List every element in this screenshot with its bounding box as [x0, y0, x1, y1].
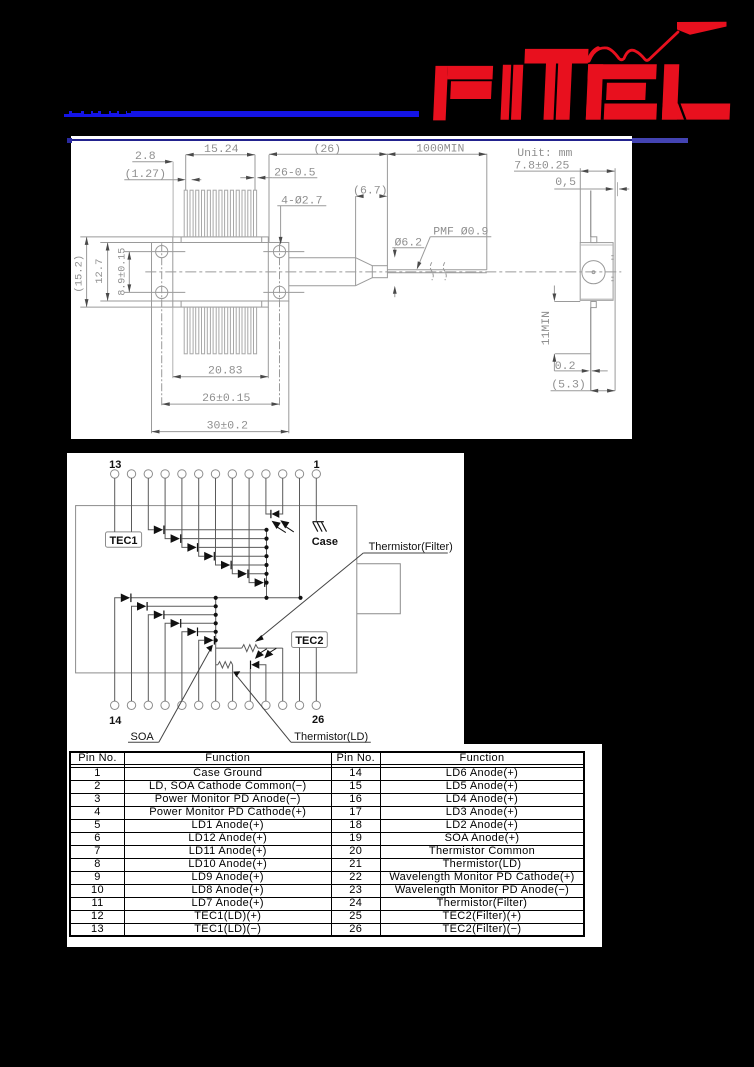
- wire pin2 to cathode common node: [298, 478, 300, 598]
- logo letter E stem body: [586, 64, 603, 119]
- thermistor (LD) zigzag: [217, 661, 232, 667]
- svg-text:1: 1: [313, 458, 319, 470]
- filter sub-assembly box right edge / pin24 stub: [281, 648, 283, 701]
- bottom leads (13 fins): [184, 307, 187, 354]
- svg-text:15.24: 15.24: [204, 143, 239, 156]
- pin 17 circle: [161, 701, 169, 709]
- fiber entering top: [589, 190, 591, 236]
- texts: [109, 458, 453, 742]
- LD4 cathode bar: [163, 610, 165, 619]
- pin 6 circle: [228, 469, 236, 477]
- pin 9 circle: [177, 469, 185, 477]
- TEC2 wire to pin26: [315, 647, 317, 701]
- thermistor(Filter) label underline and leader: [363, 552, 447, 554]
- LD10 cathode bar: [213, 552, 215, 561]
- pin 4 circle: [261, 469, 269, 477]
- svg-text:2.8: 2.8: [135, 150, 156, 163]
- LD4 diode: [153, 610, 162, 619]
- svg-text:0,5: 0,5: [555, 176, 576, 189]
- wavelength PD light arrows: [260, 648, 267, 652]
- arrowheads: [84, 152, 626, 433]
- PMF leader: [430, 235, 491, 237]
- right view receptacle circle: [582, 260, 605, 283]
- logo letter T stem right: [556, 64, 572, 120]
- dim (1.27) leader: [124, 178, 178, 180]
- wire pin14 to LD6 anode: [114, 597, 120, 700]
- wire pin12 to TEC1: [130, 478, 132, 532]
- pin 18 circle: [177, 701, 185, 709]
- right view side ticks: [611, 254, 614, 256]
- TEC2 box: [291, 631, 327, 647]
- svg-text:30±0.2: 30±0.2: [206, 419, 247, 432]
- right dim 7.8: [514, 170, 615, 172]
- LD4 cathode wire to bus: [163, 613, 215, 615]
- LD8 cathode bar: [179, 534, 181, 543]
- hole centerlines: [124, 250, 185, 252]
- LD11 cathode wire to bus: [231, 564, 266, 566]
- LD5 cathode bar: [146, 602, 148, 611]
- LD3 cathode bar: [179, 619, 181, 628]
- svg-text:PMF Ø0.9: PMF Ø0.9: [433, 225, 488, 238]
- filter sub-assembly box top edge: [215, 647, 241, 649]
- SOA label underline and leader: [128, 741, 159, 743]
- LD12 cathode wire to bus: [247, 572, 266, 574]
- logo letter T crossbar: [524, 49, 588, 64]
- case ground hatch: [312, 520, 323, 522]
- TEC2 wire to pin25: [298, 647, 300, 701]
- pin 22 circle: [245, 701, 253, 709]
- svg-text:13: 13: [109, 458, 121, 470]
- pin 2 circle: [295, 469, 303, 477]
- figure box 2: pin connection schematic: [67, 453, 464, 744]
- ferrule: [372, 265, 387, 277]
- pin 23 circle: [261, 701, 269, 709]
- wire pin19 to SOA anode: [198, 640, 203, 701]
- pin 20 circle: [211, 701, 219, 709]
- svg-text:(26): (26): [313, 143, 341, 156]
- thermistor (Filter) zigzag: [241, 644, 257, 651]
- LD2 cathode wire to bus: [197, 630, 215, 632]
- svg-text:SOA: SOA: [130, 731, 154, 743]
- upper cathode bus: [265, 529, 267, 597]
- svg-text:26±0.15: 26±0.15: [202, 392, 250, 405]
- pin 3 circle: [278, 469, 286, 477]
- LD12 cathode bar: [247, 569, 249, 578]
- junction dots lower bus: [213, 604, 217, 608]
- left dim 12.7: [100, 241, 151, 243]
- SOA leader arrowhead: [206, 644, 213, 651]
- wire pin10 to LD8 anode: [165, 478, 170, 538]
- thermistor(LD) label underline and leader: [291, 741, 371, 743]
- svg-text:(5.3): (5.3): [551, 378, 585, 391]
- svg-text:(6.7): (6.7): [353, 184, 387, 197]
- pin 7 circle: [211, 469, 219, 477]
- LD8 cathode wire to bus: [180, 537, 266, 539]
- wire pin13 to TEC1: [113, 478, 115, 532]
- LD9 diode: [187, 543, 196, 552]
- LD10 cathode wire to bus: [214, 555, 266, 557]
- blue bar right of box1: [632, 138, 688, 143]
- fiber exiting bottom: [589, 307, 591, 390]
- pin 5 circle: [245, 469, 253, 477]
- LD5 diode: [137, 602, 146, 611]
- svg-text:26-0.5: 26-0.5: [274, 166, 315, 179]
- wire pin15 to LD5 anode: [131, 606, 136, 701]
- pin 10 circle: [161, 469, 169, 477]
- pin 12 circle: [127, 469, 135, 477]
- wire pin7 to LD11 anode: [215, 478, 220, 565]
- TEC1 box: [105, 532, 141, 547]
- wire pin4 to monitor PD cathode: [266, 478, 271, 514]
- LD7 cathode bar: [163, 525, 165, 534]
- dim 26-0.5 leader: [240, 176, 254, 178]
- thermistor (LD) wire to pin21: [231, 664, 233, 700]
- pin 24 circle: [278, 701, 286, 709]
- lower cathode bus / pin20 thermistor common stub: [214, 597, 216, 700]
- logo letter E bottom bar: [586, 104, 657, 120]
- wavelength PD cathode wire to pin22: [249, 668, 251, 700]
- mounting holes 4x: [155, 245, 167, 257]
- LD5 cathode wire to bus: [147, 605, 216, 607]
- svg-text:Case: Case: [311, 535, 337, 547]
- svg-text:(15.2): (15.2): [73, 255, 85, 293]
- svg-text:1000MIN: 1000MIN: [416, 142, 464, 155]
- wire pin16 to LD4 anode: [148, 614, 153, 700]
- dim 4-2.7 leader: [277, 204, 326, 206]
- extension lines top dims: [172, 161, 174, 236]
- black heading text notches over blue line: [63, 111, 69, 114]
- logo swoosh wave: [589, 32, 679, 61]
- snout taper: [355, 257, 372, 265]
- pin 16 circle: [144, 701, 152, 709]
- LD11 cathode bar: [230, 560, 232, 569]
- wire pin1 to case: [315, 478, 317, 521]
- wavelength PD cathode bar: [249, 660, 251, 668]
- monitor PD light arrows: [255, 521, 293, 658]
- title underline (blue): [64, 111, 419, 117]
- logo swoosh thick tip: [677, 22, 727, 35]
- right view body: [580, 242, 613, 300]
- figure box 3: pin function table: [67, 744, 602, 947]
- monitor PD wires: [269, 513, 272, 515]
- logo letter E mid bar: [606, 83, 646, 100]
- mounting flange: [151, 242, 288, 300]
- cathode common line: [130, 596, 300, 598]
- logo letter I strip 1: [501, 65, 512, 120]
- LD1 cathode bar: [263, 578, 265, 587]
- logo letter L stem: [662, 64, 679, 119]
- wire pin9 to LD9 anode: [182, 478, 187, 547]
- pin 25 circle: [295, 701, 303, 709]
- wire pin8 to LD10 anode: [198, 478, 203, 556]
- main centerline: [145, 271, 621, 273]
- pin 8 circle: [194, 469, 202, 477]
- wire pin11 to LD7 anode: [148, 478, 153, 530]
- dim line (26)/1000MIN: [269, 153, 487, 155]
- junction dots upper bus: [264, 527, 268, 531]
- pin 26 circle: [312, 701, 320, 709]
- LD11 diode: [221, 560, 230, 569]
- wire pin17 to LD3 anode: [165, 623, 170, 701]
- LD9 cathode bar: [196, 543, 198, 552]
- fiber exit protrusion: [356, 563, 399, 613]
- svg-text:14: 14: [109, 714, 122, 726]
- bottom dim 20.83: [171, 307, 173, 378]
- svg-text:20.83: 20.83: [208, 364, 243, 377]
- LD7 cathode wire to bus: [163, 528, 266, 530]
- dimension texts: [73, 142, 585, 432]
- LD9 cathode wire to bus: [197, 546, 266, 548]
- svg-text:Thermistor(LD): Thermistor(LD): [294, 731, 368, 743]
- dim (5.3): [550, 389, 614, 391]
- package body outline: [172, 237, 267, 307]
- dim 0.2: [553, 354, 555, 371]
- leader lines: [128, 553, 448, 742]
- dim 6.2 leader: [392, 246, 424, 248]
- svg-text:8.9±0.15: 8.9±0.15: [116, 248, 127, 296]
- top leads (13 fins): [184, 190, 256, 354]
- figure box 1: package outline drawing: [71, 136, 633, 439]
- fiber (PMF): [387, 269, 486, 271]
- wire pin3 to monitor PD anode: [279, 478, 282, 514]
- svg-text:Unit: mm: Unit: mm: [517, 147, 572, 160]
- svg-text:7.8±0.25: 7.8±0.25: [514, 159, 569, 172]
- logo E stencil gap: [601, 100, 605, 120]
- logo L stencil gap: [678, 104, 687, 120]
- thermistor(LD) leader arrowhead: [233, 671, 240, 677]
- svg-text:26: 26: [312, 713, 324, 725]
- LD2 cathode bar: [196, 627, 198, 636]
- svg-text:0.2: 0.2: [554, 360, 575, 373]
- wire pin6 to LD12 anode: [232, 478, 237, 574]
- logo letter F stem: [433, 66, 448, 121]
- LD6 diode: [120, 593, 129, 602]
- LD3 diode: [170, 619, 179, 628]
- pin 15 circle: [127, 701, 135, 709]
- pin 11 circle: [144, 469, 152, 477]
- bottom dim 30+-0.2: [150, 301, 152, 433]
- LD2 diode: [187, 627, 196, 636]
- wavelength PD triangle: [251, 660, 259, 668]
- lead shoulder band top: [180, 237, 182, 243]
- blue square left of box1: [67, 138, 72, 143]
- thermistor(Filter) leader arrowhead: [254, 635, 263, 642]
- dim line 15.24: [185, 153, 254, 155]
- LD10 diode: [204, 552, 213, 561]
- bottom dim 26+-0.15: [161, 403, 279, 405]
- logo letter F mid bar: [450, 81, 492, 99]
- pin 14 circle: [110, 701, 118, 709]
- pin 19 circle: [194, 701, 202, 709]
- wire pin18 to LD2 anode: [182, 631, 187, 700]
- fiber snout tube: [288, 256, 355, 258]
- svg-text:TEC1: TEC1: [109, 534, 137, 546]
- FITEL logo: [410, 10, 754, 125]
- wire pin5 to LD1 anode: [249, 478, 254, 582]
- SOA diode: [204, 636, 213, 645]
- SOA cathode bar: [213, 636, 215, 645]
- svg-text:11MIN: 11MIN: [539, 311, 552, 345]
- LD8 diode: [170, 534, 179, 543]
- svg-text:4-Ø2.7: 4-Ø2.7: [281, 194, 322, 207]
- lead shoulder band bottom: [180, 301, 182, 307]
- pin 1 circle: [312, 469, 320, 477]
- monitor PD cathode bar: [270, 509, 272, 517]
- dim 11MIN: [553, 285, 555, 294]
- LD6 cathode bar: [130, 593, 132, 602]
- monitor PD triangle: [271, 510, 279, 518]
- navy rule inside box1 top: [72, 139, 632, 141]
- left dim 8.9: [128, 251, 130, 292]
- LD7 diode: [153, 525, 162, 534]
- logo letter I strip 2: [511, 65, 523, 120]
- svg-text:(1.27): (1.27): [124, 168, 165, 181]
- pin 21 circle: [228, 701, 236, 709]
- thermistor (LD) wire: [215, 663, 217, 665]
- left dim (15.2): [80, 236, 172, 238]
- fiber break marks: [430, 262, 433, 280]
- pin 13 circle: [110, 469, 118, 477]
- logo letter E top bar: [588, 64, 657, 79]
- svg-text:TEC2: TEC2: [295, 634, 323, 646]
- logo letter T stem left: [544, 64, 557, 120]
- LD1 cathode wire to bus: [264, 581, 266, 583]
- wavelength PD anode wire to pin23: [259, 664, 266, 700]
- junction dots common line: [264, 595, 268, 599]
- svg-text:Thermistor(Filter): Thermistor(Filter): [368, 541, 452, 553]
- package outline rectangle: [75, 505, 356, 672]
- logo letter L bottom bar: [662, 104, 730, 120]
- svg-text:12.7: 12.7: [93, 258, 105, 283]
- dim 2.8 leader: [132, 160, 166, 162]
- LD3 cathode wire to bus: [180, 622, 215, 624]
- LD1 diode: [254, 578, 263, 587]
- right dim 0,5: [554, 188, 612, 190]
- LD12 diode: [237, 569, 246, 578]
- SOA cathode wire to bus: [214, 639, 215, 641]
- logo letter F top bar: [447, 66, 493, 80]
- svg-text:Ø6.2: Ø6.2: [394, 236, 422, 249]
